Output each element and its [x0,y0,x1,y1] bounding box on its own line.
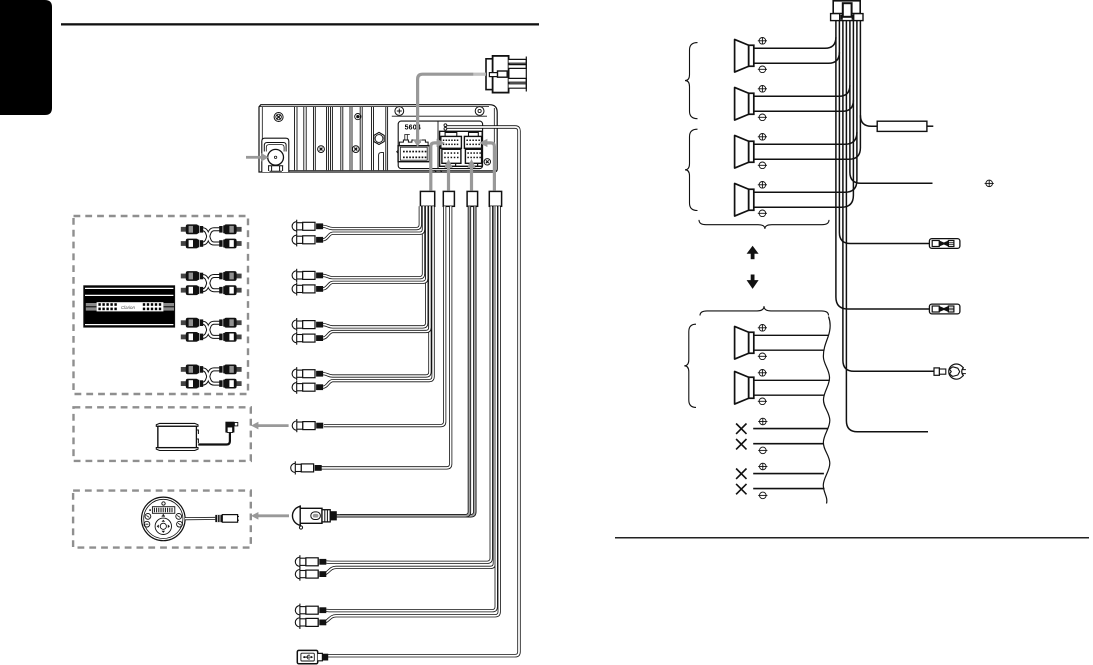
chassis left inner line [261,107,263,140]
small bracket mark above main socket [405,135,410,141]
gray arrow to antenna jack [246,156,262,159]
accessory box (box 2) [156,422,237,451]
single RCA cable 2 [319,206,451,468]
bottom rule [615,537,1089,539]
RCA pair 4 cables [323,206,433,387]
wire: speaker L + [754,334,829,336]
unused wire 1 (+) with X [753,428,827,430]
chassis inner top line [260,106,490,108]
antenna jack base [268,166,283,172]
bottom RCA pair 1 cables [322,206,494,574]
output plug 2 [443,191,454,206]
dashed box 1 (amplifier) [74,216,249,394]
wire: speaker R + [754,379,830,381]
wire: speaker R - [754,394,825,396]
RCA plugs pair 1 [292,220,323,233]
hex nut [374,132,384,144]
RCA plugs pair 3 [292,318,323,331]
RCA pair 3 cables [323,206,430,338]
screw mid-left [318,146,325,153]
USB connector [297,650,328,663]
antenna jack housing [262,138,289,172]
wire: rear-right speaker + [754,132,857,192]
- label speaker L [758,353,767,360]
RCA plugs pair 2 [292,269,323,282]
wire: front-left speaker + [754,21,836,49]
screw top-left (torx) [274,113,283,122]
+ label speaker FL [758,37,767,44]
screw right-section top-left [395,107,404,116]
output plug 3 [467,191,478,206]
crossed RCA lead 2 [181,271,242,295]
+ label speaker R [758,369,767,376]
unused wire 2 (-) with X [753,443,823,445]
marine remote control (box 3) [142,497,240,541]
USB cable jack end circles [444,124,447,127]
screw mid-right [352,146,359,153]
speaker RL [735,135,754,168]
+ label for accessory lead [985,180,994,187]
svg-text:Clarion: Clarion [121,305,135,310]
wire: rear-left speaker + [754,21,857,145]
brace below 4-speaker system (pointing down) [699,220,829,229]
wire: rear-left speaker - [754,115,861,159]
torn harness wavy edge [823,317,830,504]
sub connector A upper [441,132,462,148]
antenna jack [268,149,284,165]
small ticks below main socket [435,170,443,172]
wire: rear antenna lead to spade terminal 2 [836,37,930,309]
ISO power connector P1 (top of harness) [831,1,863,21]
RCA plug single 1 [292,419,323,432]
bracket right of fins [379,153,384,171]
screw right-section top-right [475,107,484,116]
sub connector housing [440,131,483,166]
wire: amp remote lead to spade terminal 1 [839,52,929,243]
heat sink fins [295,107,374,171]
RCA pair 1 cables [323,206,424,240]
cigar lighter power cable [340,206,475,516]
+ label speaker L [758,324,767,331]
wire: bare lead [846,21,928,432]
amplifier unit [84,286,175,327]
gray power lead from ISO connector into deck [473,73,486,76]
crossed RCA lead 3 [181,318,242,342]
black chapter tab top-left [0,0,52,115]
crossed RCA lead 1 [181,224,242,248]
+ label speaker FR [758,85,767,92]
- label speaker RL [758,162,767,169]
brace rear speaker group [685,129,698,210]
speaker FL [735,39,754,72]
wire: battery lead to fuse [860,21,877,127]
chassis inner bottom line [262,170,494,172]
panel divider [437,121,439,169]
brace front speaker group [685,43,698,119]
brace above 2-speaker system (pointing up) [700,306,829,315]
top rule [61,23,539,25]
speaker FR [735,87,754,120]
deck chassis outline [259,105,497,172]
fuse [877,121,927,131]
wire: speaker L - [754,349,824,351]
RCA plugs pair 4 [292,367,323,380]
- label speaker FR [758,114,767,121]
output plug 4 [489,191,501,206]
RCA plug single 2 [291,461,322,474]
dashed box 2 (accessory) [74,407,251,461]
gray arrow from plug 4 into deck [487,143,494,191]
- label speaker FL [758,66,767,73]
gray arrow from plug 2 into deck [447,168,450,191]
wire: accessory + lead [850,85,933,183]
+ label speaker RR [758,181,767,188]
- label speaker RR [758,210,767,217]
speaker L (2-speaker system) [735,326,754,359]
brace left of 2-speaker system [684,324,696,407]
dashed box 3 (remote control) [73,491,251,548]
sub connector A lower [442,149,461,166]
gray arrow to accessory box 3 [258,514,289,517]
crossed RCA lead 4 [181,365,242,389]
wire: rear-right speaker - [754,100,854,207]
+ label speaker RL [758,133,767,140]
spade terminal 1 [929,239,960,249]
sub connector B lower [465,149,481,166]
swap arrow down [751,275,755,281]
bottom RCA plugs pair 1 [295,555,326,568]
cigar lighter plug [292,505,336,529]
screw bottom-right [484,159,490,165]
gray arrow from plug 3 into deck [470,168,473,191]
section divider lines [385,107,387,171]
RCA pair 2 cables [323,206,427,289]
USB extension cable [328,127,519,656]
main ISO socket (16 pin) [397,140,430,162]
- label speaker R [758,398,767,405]
output plug 1 (RCA preout front/rear) [420,191,434,206]
wire: front-right speaker + [754,21,850,97]
bottom RCA pair 2 cables [322,206,499,622]
gray arrow from plug 1 into deck [431,143,437,191]
ISO power connector at deck (top right) [486,56,526,93]
bottom RCA plugs pair 2 [295,604,326,617]
wire: ground lead to ring terminal [843,21,934,372]
line under top screws [392,115,487,117]
wire: front-left speaker - [754,21,840,64]
unused wire 4 (-) with X [753,488,824,490]
antenna housing handle [264,143,286,152]
ring terminal [934,364,966,379]
connector panel [398,121,482,169]
gray arrow to accessory box 2 [258,424,289,427]
unused wire 3 (+) with X [753,473,824,475]
sub connector B upper [464,132,481,148]
screw small top-mid (torx) [355,114,361,120]
speaker R (2-speaker system) [735,371,754,404]
wire: front-right speaker - [754,21,854,112]
speaker RR [735,183,754,216]
spade terminal 2 [929,304,960,314]
right margin inner line [493,108,495,170]
remote cable [185,517,215,520]
single RCA cable 1 (video out) [324,206,445,425]
swap arrow up [751,253,755,259]
